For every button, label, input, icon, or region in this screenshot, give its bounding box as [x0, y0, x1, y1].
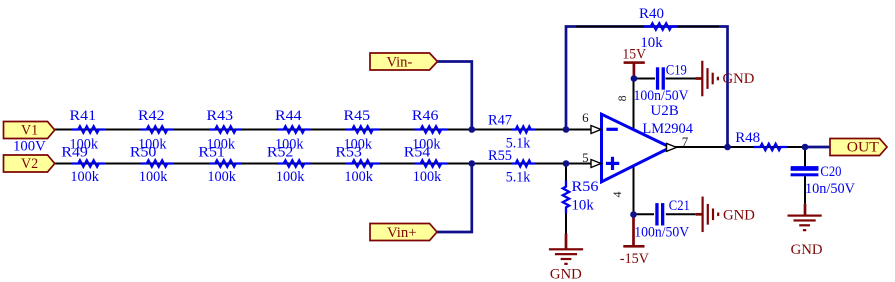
svg-text:R54: R54 — [404, 145, 431, 161]
svg-text:15V: 15V — [622, 46, 646, 62]
svg-text:100k: 100k — [413, 169, 442, 185]
svg-text:100k: 100k — [344, 169, 373, 185]
svg-text:V1: V1 — [21, 122, 38, 138]
svg-text:R51: R51 — [198, 145, 225, 161]
svg-text:C20: C20 — [820, 164, 841, 180]
svg-text:GND: GND — [550, 266, 582, 282]
svg-text:10k: 10k — [572, 198, 595, 214]
svg-text:OUT: OUT — [847, 140, 879, 156]
svg-text:5.1k: 5.1k — [506, 170, 531, 186]
svg-text:R48: R48 — [735, 130, 760, 146]
svg-text:5: 5 — [582, 150, 589, 165]
svg-text:6: 6 — [582, 110, 589, 125]
svg-text:R47: R47 — [488, 113, 512, 129]
svg-text:R42: R42 — [138, 108, 165, 124]
svg-text:GND: GND — [723, 71, 755, 87]
svg-text:R44: R44 — [275, 108, 302, 124]
svg-text:100V: 100V — [13, 138, 46, 154]
svg-text:R41: R41 — [70, 108, 97, 124]
svg-text:Vin-: Vin- — [386, 54, 412, 70]
svg-text:R46: R46 — [412, 108, 439, 124]
svg-text:R49: R49 — [61, 145, 88, 161]
svg-text:100n/50V: 100n/50V — [634, 224, 689, 240]
svg-text:100k: 100k — [276, 169, 305, 185]
svg-text:R45: R45 — [344, 108, 371, 124]
svg-text:R40: R40 — [639, 6, 664, 22]
svg-text:GND: GND — [723, 208, 755, 224]
svg-text:V2: V2 — [21, 156, 38, 172]
svg-text:-15V: -15V — [620, 251, 649, 267]
svg-text:R55: R55 — [488, 148, 512, 164]
svg-text:100k: 100k — [207, 169, 236, 185]
svg-text:100k: 100k — [70, 169, 99, 185]
svg-text:4: 4 — [610, 192, 624, 198]
svg-text:Vin+: Vin+ — [387, 225, 417, 241]
svg-text:GND: GND — [791, 242, 823, 258]
svg-text:R56: R56 — [572, 179, 600, 195]
svg-text:100n/50V: 100n/50V — [634, 88, 689, 104]
svg-text:100k: 100k — [139, 169, 168, 185]
svg-text:R50: R50 — [130, 145, 157, 161]
svg-text:10n/50V: 10n/50V — [805, 181, 855, 197]
svg-text:C21: C21 — [669, 198, 690, 214]
svg-text:8: 8 — [615, 95, 629, 101]
svg-text:7: 7 — [682, 134, 689, 149]
svg-text:U2B: U2B — [650, 103, 678, 119]
svg-text:C19: C19 — [666, 63, 687, 79]
svg-text:R52: R52 — [267, 145, 294, 161]
svg-text:R53: R53 — [335, 145, 362, 161]
svg-text:R43: R43 — [207, 108, 234, 124]
